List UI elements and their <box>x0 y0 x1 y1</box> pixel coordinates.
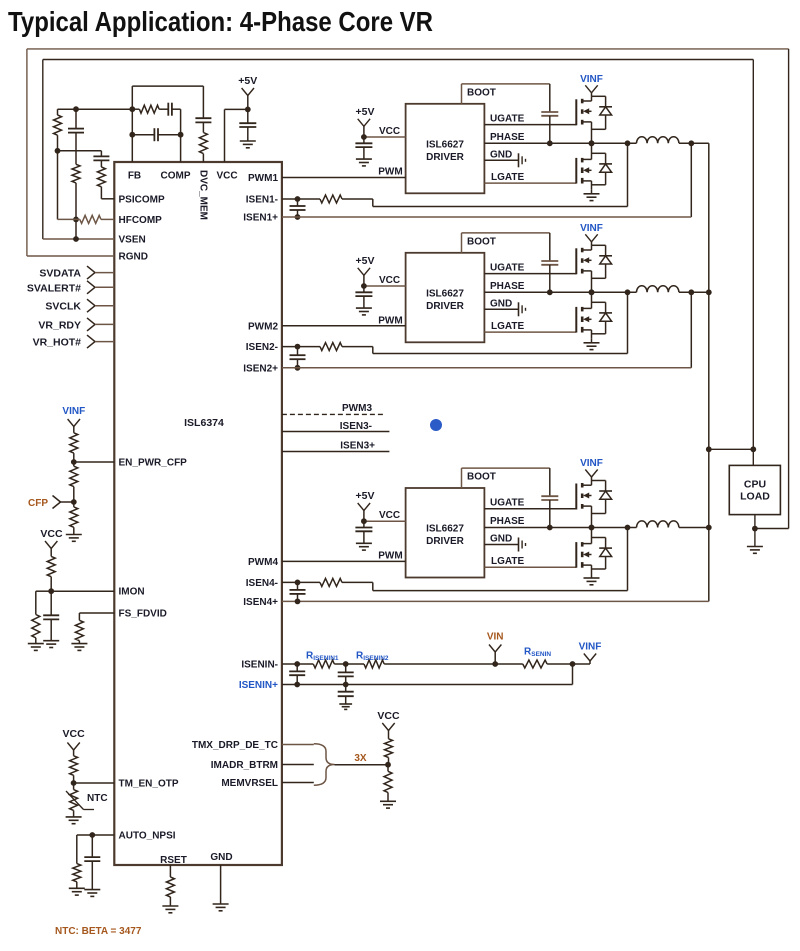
svg-text:PWM: PWM <box>378 315 402 326</box>
svg-text:ISEN1+: ISEN1+ <box>243 213 278 224</box>
svg-text:+5V: +5V <box>238 75 257 87</box>
svg-text:FS_FDVID: FS_FDVID <box>119 609 167 620</box>
svg-text:ISEN3+: ISEN3+ <box>340 441 375 452</box>
svg-text:PWM: PWM <box>378 166 402 177</box>
svg-text:ISENIN-: ISENIN- <box>241 660 278 671</box>
svg-text:CFP: CFP <box>28 498 48 509</box>
svg-text:VR_HOT#: VR_HOT# <box>33 337 82 349</box>
svg-text:AUTO_NPSI: AUTO_NPSI <box>119 831 176 842</box>
svg-text:BOOT: BOOT <box>467 236 496 247</box>
svg-text:TM_EN_OTP: TM_EN_OTP <box>119 779 179 790</box>
svg-text:COMP: COMP <box>161 171 191 182</box>
svg-text:UGATE: UGATE <box>490 262 525 273</box>
svg-text:IMADR_BTRM: IMADR_BTRM <box>211 760 278 771</box>
svg-text:PHASE: PHASE <box>490 132 525 143</box>
svg-text:ISEN2-: ISEN2- <box>246 342 278 353</box>
svg-text:LOAD: LOAD <box>740 491 770 503</box>
svg-text:DVC_MEM: DVC_MEM <box>198 170 209 220</box>
svg-text:ISEN4-: ISEN4- <box>246 578 278 589</box>
svg-text:SVCLK: SVCLK <box>45 301 81 313</box>
svg-text:Typical Application: 4-Phase C: Typical Application: 4-Phase Core VR <box>8 6 433 37</box>
svg-text:VCC: VCC <box>377 710 400 722</box>
svg-text:VCC: VCC <box>379 510 400 521</box>
svg-text:ISL6627: ISL6627 <box>426 524 464 535</box>
svg-text:PWM2: PWM2 <box>248 321 278 332</box>
svg-text:UGATE: UGATE <box>490 498 525 509</box>
svg-text:GND: GND <box>490 149 512 160</box>
svg-text:LGATE: LGATE <box>491 172 524 183</box>
svg-text:VINF: VINF <box>62 406 85 417</box>
svg-text:PWM3: PWM3 <box>342 403 372 414</box>
svg-text:VCC: VCC <box>63 728 86 740</box>
svg-text:3X: 3X <box>354 753 367 764</box>
svg-text:SVALERT#: SVALERT# <box>27 282 81 294</box>
svg-text:ISL6627: ISL6627 <box>426 288 464 299</box>
svg-text:MEMVRSEL: MEMVRSEL <box>221 778 278 789</box>
svg-text:RSET: RSET <box>160 855 187 866</box>
svg-text:GND: GND <box>490 298 512 309</box>
svg-text:BOOT: BOOT <box>467 87 496 98</box>
svg-text:VCC: VCC <box>379 275 400 286</box>
svg-text:ISL6374: ISL6374 <box>184 417 224 429</box>
svg-text:NTC: NTC <box>87 793 108 804</box>
svg-text:BOOT: BOOT <box>467 472 496 483</box>
svg-text:ISEN3-: ISEN3- <box>340 421 372 432</box>
svg-text:HFCOMP: HFCOMP <box>119 215 163 226</box>
svg-text:CPU: CPU <box>744 479 766 491</box>
svg-text:GND: GND <box>490 534 512 545</box>
svg-text:ISENIN+: ISENIN+ <box>239 680 278 691</box>
svg-text:LGATE: LGATE <box>491 556 524 567</box>
svg-text:DRIVER: DRIVER <box>426 301 465 312</box>
svg-text:VR_RDY: VR_RDY <box>38 319 81 331</box>
svg-text:+5V: +5V <box>356 490 375 502</box>
svg-text:PWM: PWM <box>378 551 402 562</box>
svg-text:VINF: VINF <box>580 223 603 234</box>
svg-text:VINF: VINF <box>579 642 602 653</box>
svg-text:PWM4: PWM4 <box>248 557 278 568</box>
svg-text:EN_PWR_CFP: EN_PWR_CFP <box>119 458 188 469</box>
svg-text:VSEN: VSEN <box>119 235 146 246</box>
svg-text:DRIVER: DRIVER <box>426 152 465 163</box>
svg-text:UGATE: UGATE <box>490 113 525 124</box>
svg-text:ISEN4+: ISEN4+ <box>243 597 278 608</box>
svg-text:IMON: IMON <box>119 587 145 598</box>
svg-text:NTC: BETA = 3477: NTC: BETA = 3477 <box>55 926 142 937</box>
svg-text:VCC: VCC <box>40 528 63 540</box>
svg-text:PHASE: PHASE <box>490 281 525 292</box>
svg-text:LGATE: LGATE <box>491 321 524 332</box>
svg-text:DRIVER: DRIVER <box>426 536 465 547</box>
svg-text:VCC: VCC <box>216 171 237 182</box>
svg-text:RGND: RGND <box>119 252 148 263</box>
svg-text:PHASE: PHASE <box>490 516 525 527</box>
svg-text:SVDATA: SVDATA <box>39 268 81 280</box>
svg-text:PWM1: PWM1 <box>248 173 278 184</box>
svg-text:TMX_DRP_DE_TC: TMX_DRP_DE_TC <box>192 740 278 751</box>
svg-text:+5V: +5V <box>356 255 375 267</box>
svg-text:GND: GND <box>210 852 232 863</box>
svg-text:VINF: VINF <box>580 458 603 469</box>
svg-text:VCC: VCC <box>379 126 400 137</box>
svg-text:ISEN1-: ISEN1- <box>246 195 278 206</box>
svg-text:PSICOMP: PSICOMP <box>119 195 165 206</box>
svg-text:FB: FB <box>128 171 141 182</box>
svg-text:ISL6627: ISL6627 <box>426 139 464 150</box>
svg-text:+5V: +5V <box>356 106 375 118</box>
svg-text:VIN: VIN <box>487 632 504 643</box>
svg-text:VINF: VINF <box>580 74 603 85</box>
svg-text:ISEN2+: ISEN2+ <box>243 363 278 374</box>
